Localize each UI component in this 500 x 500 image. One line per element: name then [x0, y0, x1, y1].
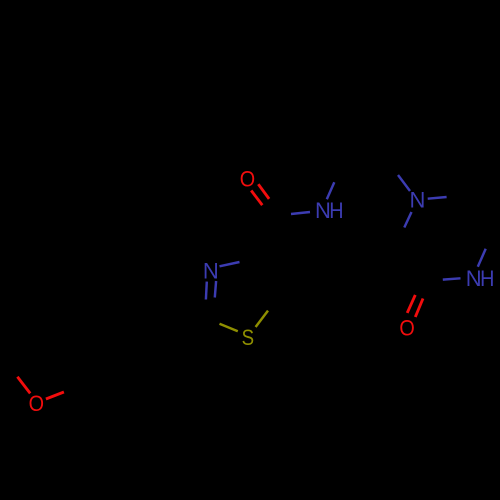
wire: amide C=O double bond (oxygen halves) [251, 184, 269, 205]
svg-text:H: H [329, 199, 343, 223]
wire: amide C-N bond (blue half) [291, 212, 310, 214]
svg-text:N: N [203, 259, 219, 284]
wire: amide N-CH2 bond (blue half) [327, 182, 335, 199]
wire: lactam N4-C3 bond (blue half) [443, 278, 461, 279]
wire: piperazine N1-C2 ring bond (blue half) [404, 212, 411, 228]
wire: thiazole N3-C4 bond (blue half) [220, 262, 240, 266]
wire: lactam N4-C5 bond (blue half) [478, 249, 486, 267]
svg-text:H: H [480, 267, 494, 291]
wire: methoxy O-aryl bond (oxygen half) [46, 392, 64, 399]
wire: lactam C3=O double bond (oxygen halves) [407, 295, 423, 317]
wire: thiazole N3=C2 double bond (blue halves) [206, 281, 216, 300]
wire: piperazine N1-C6 ring bond (blue half) [428, 197, 447, 199]
svg-text:N: N [410, 188, 426, 213]
wire: thiazole S1-C2 bond (sulfur half) [220, 324, 238, 332]
svg-text:S: S [242, 326, 254, 350]
wire: thiazole S1-C5 bond (sulfur half) [256, 311, 268, 327]
svg-text:O: O [29, 392, 44, 416]
svg-text:O: O [240, 168, 255, 192]
wire: methoxy O-CH3 bond (oxygen half) [17, 377, 30, 394]
svg-text:O: O [399, 316, 414, 340]
wire: piperazine N1-CH2 chain bond (blue half) [398, 175, 410, 191]
